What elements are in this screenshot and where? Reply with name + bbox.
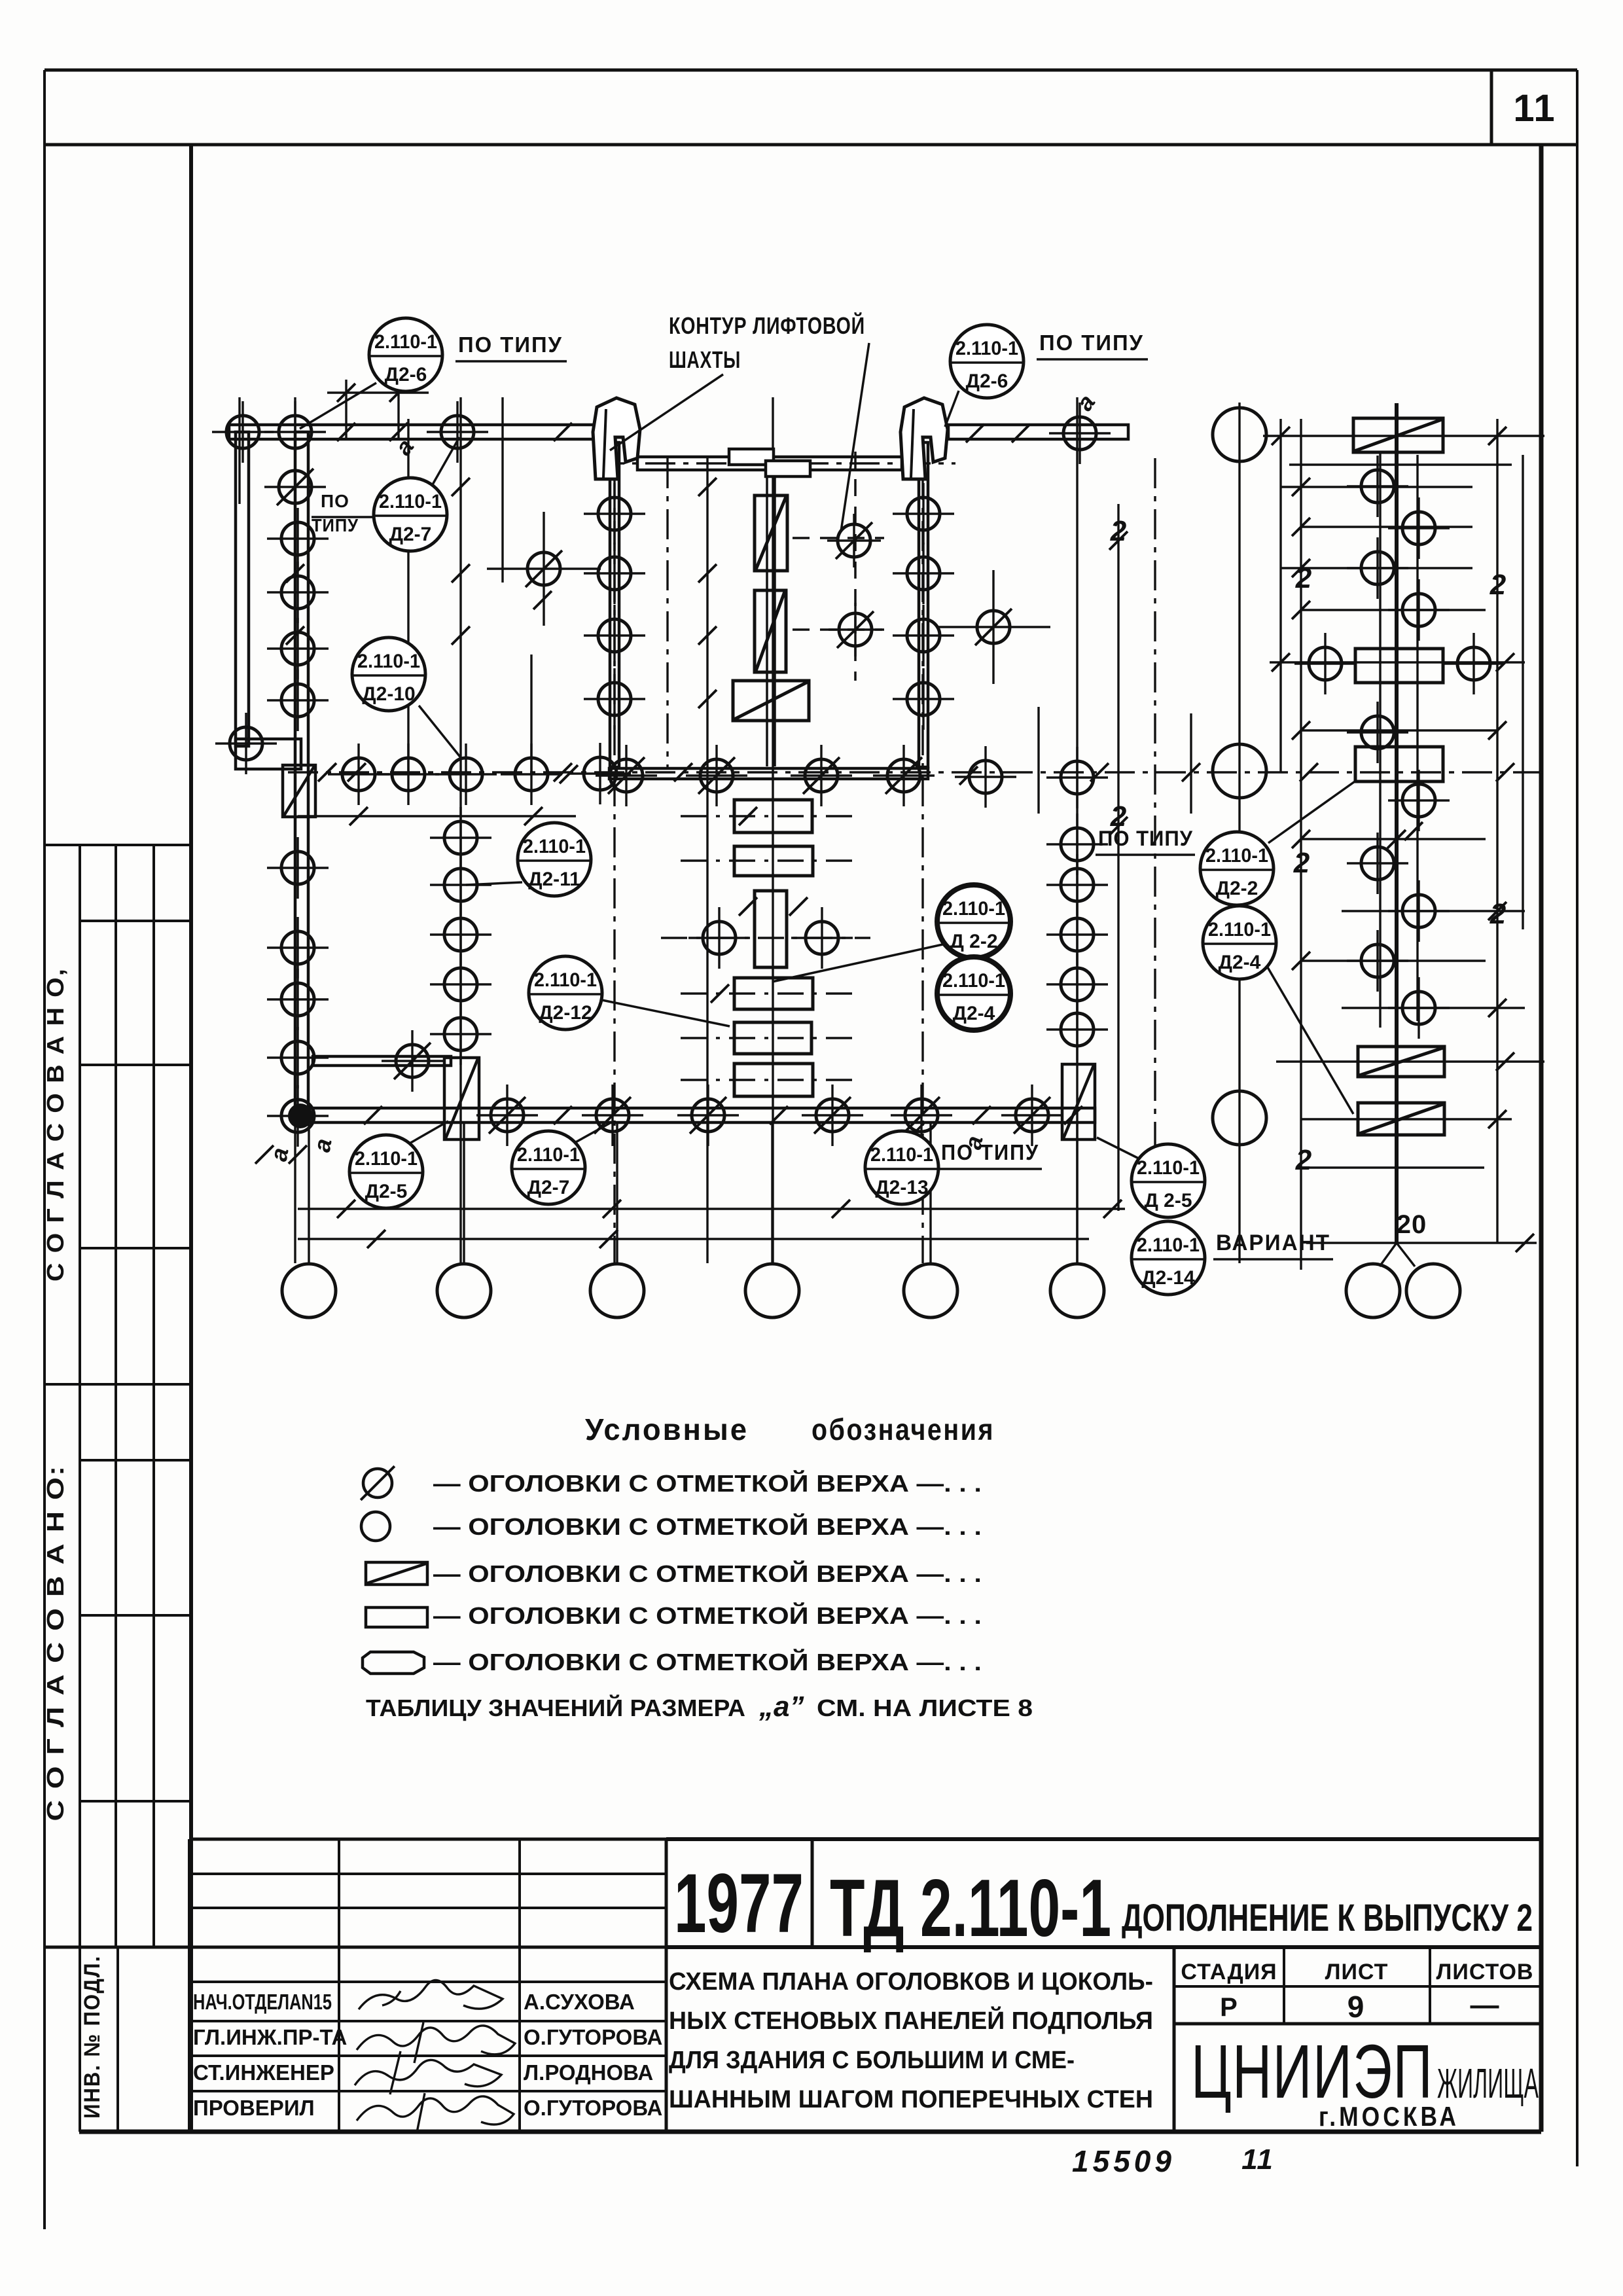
svg-text:СХЕМА ПЛАНА ОГОЛОВКОВ И ЦО: СХЕМА ПЛАНА ОГОЛОВКОВ И ЦОКОЛЬ- — [669, 1968, 1153, 1996]
svg-text:ПО ТИПУ: ПО ТИПУ — [458, 332, 563, 357]
svg-text:2.110-1: 2.110-1 — [942, 970, 1005, 992]
svg-text:О.ГУТОРОВА: О.ГУТОРОВА — [524, 2025, 662, 2049]
svg-text:2.110-1: 2.110-1 — [374, 331, 437, 353]
svg-text:2.110-1: 2.110-1 — [517, 1144, 580, 1166]
svg-text:2.110-1: 2.110-1 — [870, 1144, 933, 1166]
svg-text:ТД 2.110-1: ТД 2.110-1 — [830, 1863, 1111, 1954]
svg-text:20: 20 — [1397, 1210, 1427, 1239]
svg-text:15509: 15509 — [1072, 2144, 1175, 2178]
svg-text:Д2-5: Д2-5 — [365, 1181, 408, 1202]
svg-text:ТАБЛИЦУ ЗНАЧЕНИЙ РАЗМЕРА: ТАБЛИЦУ ЗНАЧЕНИЙ РАЗМЕРА — [366, 1694, 745, 1721]
svg-text:ГЛ.ИНЖ.ПР-ТА: ГЛ.ИНЖ.ПР-ТА — [193, 2025, 347, 2049]
svg-text:Д2-6: Д2-6 — [966, 370, 1008, 392]
svg-text:НЫХ СТЕНОВЫХ ПАНЕЛЕЙ ПОДПОЛ: НЫХ СТЕНОВЫХ ПАНЕЛЕЙ ПОДПОЛЬЯ — [669, 2005, 1153, 2035]
svg-text:Д2-14: Д2-14 — [1141, 1267, 1195, 1289]
svg-text:9: 9 — [1347, 1990, 1365, 2024]
svg-text:Д 2-2: Д 2-2 — [950, 931, 997, 952]
svg-text:Условные: Условные — [585, 1412, 749, 1446]
svg-text:2.110-1: 2.110-1 — [357, 651, 420, 672]
svg-text:СМ. НА ЛИСТЕ 8: СМ. НА ЛИСТЕ 8 — [817, 1695, 1033, 1721]
svg-text:А.СУХОВА: А.СУХОВА — [524, 1990, 635, 2014]
svg-text:ПРОВЕРИЛ: ПРОВЕРИЛ — [193, 2096, 315, 2120]
svg-text:Д2-7: Д2-7 — [389, 524, 432, 545]
svg-text:ДОПОЛНЕНИЕ К ВЫПУСКУ 2: ДОПОЛНЕНИЕ К ВЫПУСКУ 2 — [1122, 1897, 1533, 1939]
svg-text:С О Г Л А С О В А Н О,: С О Г Л А С О В А Н О, — [42, 967, 69, 1282]
svg-text:обозначения: обозначения — [811, 1412, 995, 1446]
svg-text:2.110-1: 2.110-1 — [955, 338, 1018, 359]
svg-text:2.110-1: 2.110-1 — [1137, 1157, 1200, 1179]
svg-text:2.110-1: 2.110-1 — [1208, 919, 1271, 941]
svg-text:Д2-2: Д2-2 — [1216, 878, 1258, 899]
svg-text:г.МОСКВА: г.МОСКВА — [1319, 2101, 1459, 2132]
svg-text:Д2-4: Д2-4 — [1219, 952, 1261, 973]
svg-text:СТАДИЯ: СТАДИЯ — [1181, 1960, 1277, 1984]
svg-text:2.110-1: 2.110-1 — [1205, 845, 1268, 867]
svg-text:— ОГОЛОВКИ С ОТМЕТКОЙ В: — ОГОЛОВКИ С ОТМЕТКОЙ ВЕРХА —. . . — [433, 1469, 982, 1497]
svg-text:—: — — [1471, 1989, 1500, 2021]
svg-text:2: 2 — [1295, 1144, 1312, 1176]
svg-text:— ОГОЛОВКИ С ОТМЕТКОЙ В: — ОГОЛОВКИ С ОТМЕТКОЙ ВЕРХА —. . . — [433, 1602, 982, 1629]
svg-text:11: 11 — [1241, 2144, 1274, 2176]
svg-text:Д 2-5: Д 2-5 — [1144, 1190, 1192, 1211]
svg-text:2: 2 — [1489, 569, 1507, 601]
svg-text:ЖИЛИЩА: ЖИЛИЩА — [1437, 2060, 1539, 2107]
svg-text:ВАРИАНТ: ВАРИАНТ — [1216, 1230, 1330, 1255]
svg-text:2.110-1: 2.110-1 — [379, 491, 442, 512]
svg-text:Д2-12: Д2-12 — [539, 1002, 592, 1024]
svg-text:Д2-13: Д2-13 — [875, 1177, 928, 1198]
svg-text:— ОГОЛОВКИ С ОТМЕТКОЙ В: — ОГОЛОВКИ С ОТМЕТКОЙ ВЕРХА —. . . — [433, 1648, 982, 1676]
svg-text:ДЛЯ ЗДАНИЯ С БОЛЬШИМ И СМ: ДЛЯ ЗДАНИЯ С БОЛЬШИМ И СМЕ- — [669, 2047, 1075, 2074]
svg-text:ПО: ПО — [321, 491, 349, 511]
svg-text:2.110-1: 2.110-1 — [1137, 1234, 1200, 1256]
svg-text:ПО ТИПУ: ПО ТИПУ — [1039, 331, 1144, 355]
svg-text:2.110-1: 2.110-1 — [523, 836, 586, 857]
svg-text:Д2-4: Д2-4 — [953, 1003, 995, 1024]
svg-text:Д2-6: Д2-6 — [385, 364, 427, 386]
svg-text:Д2-10: Д2-10 — [362, 683, 415, 705]
svg-text:2: 2 — [1293, 847, 1310, 879]
svg-text:О.ГУТОРОВА: О.ГУТОРОВА — [524, 2096, 662, 2120]
svg-text:ШАННЫМ ШАГОМ ПОПЕРЕЧНЫХ СТЕ: ШАННЫМ ШАГОМ ПОПЕРЕЧНЫХ СТЕН — [669, 2086, 1153, 2113]
svg-text:Д2-7: Д2-7 — [527, 1177, 570, 1198]
svg-text:КОНТУР ЛИФТОВОЙ: КОНТУР ЛИФТОВОЙ — [669, 312, 865, 339]
svg-text:1977: 1977 — [674, 1857, 804, 1950]
svg-text:ПО ТИПУ: ПО ТИПУ — [941, 1140, 1039, 1164]
svg-text:С О Г Л А С О В А Н О:: С О Г Л А С О В А Н О: — [42, 1465, 69, 1821]
svg-text:Д2-11: Д2-11 — [528, 869, 580, 890]
svg-text:ЛИСТОВ: ЛИСТОВ — [1436, 1960, 1534, 1984]
svg-text:2.110-1: 2.110-1 — [534, 969, 597, 991]
svg-text:2: 2 — [1110, 515, 1127, 547]
svg-text:— ОГОЛОВКИ С ОТМЕТКОЙ В: — ОГОЛОВКИ С ОТМЕТКОЙ ВЕРХА —. . . — [433, 1513, 982, 1540]
svg-text:2: 2 — [1110, 800, 1127, 833]
svg-text:2: 2 — [1489, 898, 1507, 930]
svg-text:2: 2 — [1295, 562, 1312, 594]
svg-text:2.110-1: 2.110-1 — [355, 1148, 418, 1170]
svg-text:НАЧ.ОТДЕЛАN15: НАЧ.ОТДЕЛАN15 — [193, 1990, 332, 2014]
svg-text:ШАХТЫ: ШАХТЫ — [669, 346, 741, 373]
svg-text:ИНВ. № ПОДЛ.: ИНВ. № ПОДЛ. — [80, 1955, 105, 2119]
svg-text:СТ.ИНЖЕНЕР: СТ.ИНЖЕНЕР — [193, 2060, 334, 2085]
svg-text:Л.РОДНОВА: Л.РОДНОВА — [524, 2060, 653, 2085]
svg-text:ЛИСТ: ЛИСТ — [1325, 1960, 1389, 1984]
svg-text:„a”: „a” — [758, 1691, 804, 1723]
svg-text:Р: Р — [1220, 1993, 1238, 2022]
svg-text:11: 11 — [1513, 87, 1556, 130]
svg-text:2.110-1: 2.110-1 — [942, 898, 1005, 920]
svg-text:— ОГОЛОВКИ С ОТМЕТКОЙ В: — ОГОЛОВКИ С ОТМЕТКОЙ ВЕРХА —. . . — [433, 1560, 982, 1587]
